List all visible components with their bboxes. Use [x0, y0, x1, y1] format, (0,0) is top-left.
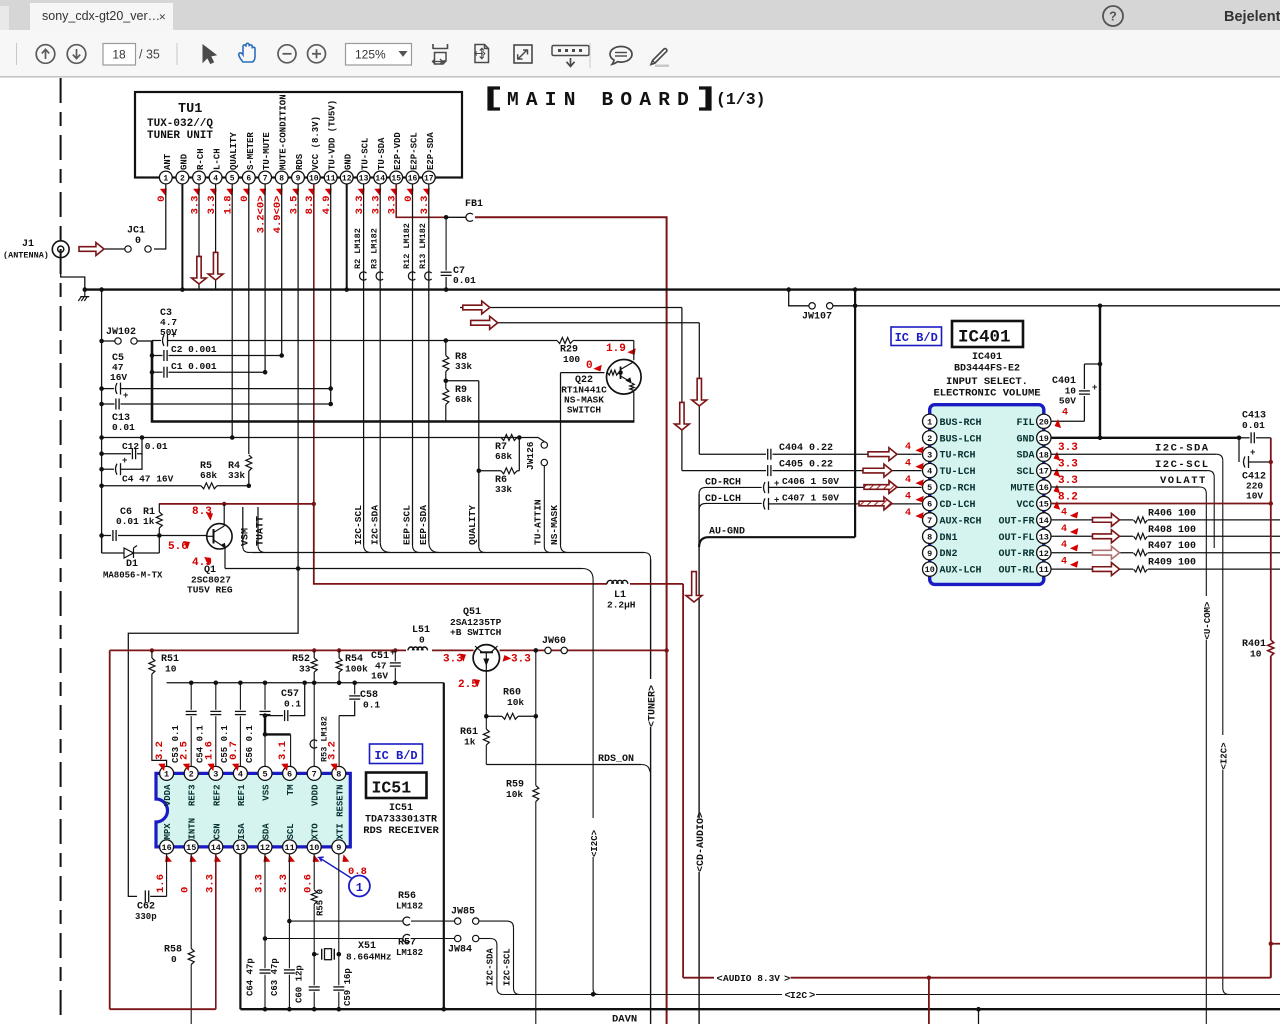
svg-text:TU-MUTE: TU-MUTE — [262, 132, 272, 170]
svg-text:JC1: JC1 — [127, 226, 145, 237]
svg-text:IC B/D: IC B/D — [374, 749, 417, 763]
resistor R8 — [443, 338, 473, 383]
wire R51 to pin1 — [149, 648, 179, 766]
svg-text:3.3: 3.3 — [1058, 442, 1078, 454]
svg-text:330p: 330p — [135, 912, 157, 922]
schematic title MAIN BOARD 1/3 — [489, 88, 766, 111]
zoom level dropdown — [346, 44, 412, 66]
svg-text:XTO: XTO — [311, 823, 321, 840]
svg-text:3.3: 3.3 — [1058, 459, 1078, 471]
inductor L51 — [408, 625, 430, 650]
svg-text:R408 100: R408 100 — [1148, 525, 1196, 536]
jumper JW126 — [519, 438, 556, 553]
svg-text:14: 14 — [1039, 516, 1049, 526]
svg-text:C62: C62 — [137, 902, 155, 913]
wire pin12 SDA down — [246, 854, 271, 1009]
capacitor C7 — [441, 217, 477, 292]
svg-text:VOLATT: VOLATT — [1160, 475, 1207, 487]
svg-text:9: 9 — [927, 549, 932, 559]
svg-text:JW102: JW102 — [106, 327, 136, 338]
diode D1 — [102, 536, 163, 581]
IC401 output R407 — [1051, 540, 1280, 556]
jumper JW107 branch — [789, 290, 1280, 323]
page number box — [103, 44, 136, 66]
IC401 VCC wire maroon — [1051, 492, 1273, 513]
svg-text:6: 6 — [287, 769, 292, 779]
svg-text:50V: 50V — [1059, 396, 1076, 407]
svg-text:✕: ✕ — [159, 11, 166, 23]
svg-text:10k: 10k — [506, 789, 523, 800]
svg-text:11: 11 — [1039, 565, 1049, 575]
IC51 top rail — [167, 681, 444, 686]
svg-text:14: 14 — [375, 174, 385, 183]
svg-text:C1 0.001: C1 0.001 — [171, 361, 217, 372]
svg-text:TU-SDA: TU-SDA — [377, 137, 387, 170]
svg-text:0.01: 0.01 — [1242, 420, 1265, 431]
bus CD-AUDIO vertical — [696, 494, 707, 1024]
TU1 pin 4 (L-CH) — [206, 148, 223, 214]
svg-text:9: 9 — [336, 843, 341, 853]
IC401 pin 4 TU-LCH — [923, 463, 976, 478]
svg-text:7: 7 — [312, 769, 317, 779]
svg-text:4: 4 — [1061, 507, 1067, 518]
arrow on R407 line — [1093, 546, 1120, 559]
svg-text:15: 15 — [391, 174, 401, 183]
svg-text:E2P-SCL: E2P-SCL — [410, 132, 420, 170]
arrow on L-CH — [208, 252, 223, 280]
svg-text:3: 3 — [213, 769, 218, 779]
IC401 pin 16 MUTE — [1010, 480, 1051, 495]
svg-text:0.1: 0.1 — [284, 699, 301, 710]
scrolling mode icon — [433, 44, 448, 49]
svg-text:TU-SCL: TU-SCL — [361, 138, 371, 170]
ferrite bead FB1 — [448, 199, 483, 221]
svg-text:VDDD: VDDD — [311, 784, 321, 806]
svg-text:I2C-SCL: I2C-SCL — [1155, 459, 1210, 471]
svg-text:13: 13 — [1039, 532, 1049, 542]
svg-text:VDDA: VDDA — [163, 784, 173, 806]
junction dots left wire — [99, 339, 104, 538]
svg-text:RDS_ON: RDS_ON — [598, 754, 634, 765]
svg-text:14: 14 — [211, 843, 221, 853]
svg-text:LM182: LM182 — [396, 948, 423, 958]
wire pin9 RDS down — [297, 184, 299, 569]
svg-text:IC401: IC401 — [958, 328, 1011, 348]
svg-text:2.2µH: 2.2µH — [607, 600, 636, 611]
wire Q1 emitter long to I2C bus — [225, 568, 582, 570]
resistor R52 — [292, 648, 317, 683]
svg-text:10: 10 — [1250, 649, 1262, 660]
svg-text:LM182: LM182 — [396, 902, 423, 912]
signal bus to TUNER — [252, 553, 659, 1024]
svg-text:3.1: 3.1 — [277, 741, 289, 760]
capacitor C58 and RESETN wire — [339, 683, 380, 767]
TU1 pin 8 (MUTE-CONDITION) — [272, 94, 289, 233]
svg-text:(1/3): (1/3) — [716, 90, 766, 109]
svg-text:3.3: 3.3 — [204, 874, 216, 893]
arrow on R-CH — [192, 256, 207, 284]
TU1 pin 15 (E2P-VDD) — [387, 132, 404, 215]
arrow on R409 line — [1093, 563, 1120, 576]
svg-text:4: 4 — [905, 459, 911, 470]
svg-text:ANT: ANT — [163, 153, 173, 170]
maroon wire FB1 to right rail — [475, 217, 667, 650]
TU1 pin 1 (ANT) — [156, 153, 173, 202]
svg-text:TU-VDD (TU5V): TU-VDD (TU5V) — [328, 100, 338, 170]
IC401 output R406 — [1051, 507, 1280, 523]
svg-text:R407 100: R407 100 — [1148, 541, 1196, 552]
svg-text:I2C-SCL: I2C-SCL — [353, 505, 364, 545]
svg-text:E2P-SDA: E2P-SDA — [426, 132, 436, 170]
capacitor C56 and VSS wire — [245, 683, 291, 767]
svg-text:<CD-AUDIO>: <CD-AUDIO> — [696, 812, 707, 872]
svg-text:5: 5 — [262, 769, 267, 779]
transistor Q51 2SA1235TP +B SWITCH — [450, 607, 502, 671]
svg-text:C407 1 50V: C407 1 50V — [782, 493, 839, 504]
wire J1 to ground — [61, 258, 85, 290]
svg-text:D1: D1 — [126, 559, 138, 570]
svg-text:TUATT: TUATT — [255, 516, 266, 546]
svg-text:4: 4 — [1062, 408, 1068, 419]
resistor R29 — [446, 338, 634, 366]
IC51 body — [156, 773, 350, 847]
svg-text:3.2: 3.2 — [154, 741, 166, 760]
svg-text:<: < — [717, 974, 723, 986]
IC401 pin 19 GND — [1016, 431, 1051, 446]
svg-text:JW126: JW126 — [525, 441, 536, 470]
IC401 description text — [933, 352, 1040, 400]
junction dots on main bus — [83, 287, 858, 292]
dashed boundary line — [60, 78, 62, 1024]
svg-text:GND: GND — [179, 153, 189, 170]
svg-text:4: 4 — [927, 467, 932, 477]
IC401 reference box — [952, 321, 1023, 348]
TU1 pin 6 (S-METER) — [239, 132, 256, 202]
svg-text:3.3: 3.3 — [511, 654, 531, 666]
IC401 pin 5 CD-RCH — [923, 480, 976, 495]
wire pin15 E2P-VDD to FB1 — [396, 184, 446, 217]
svg-text:OUT-FL: OUT-FL — [998, 533, 1034, 544]
svg-text:17: 17 — [1039, 467, 1049, 477]
svg-text:R13 LM182: R13 LM182 — [418, 223, 428, 269]
jumper JC1 — [104, 226, 151, 253]
jumper JW102 — [102, 327, 152, 344]
wire R8 junction to quality net — [446, 380, 479, 382]
junction dots bottom bus — [263, 1007, 981, 1024]
full screen icon — [514, 45, 532, 63]
page up button — [36, 45, 55, 64]
net AU-GND — [699, 527, 855, 548]
wire pin9 XTI down — [333, 854, 353, 1009]
svg-text:4: 4 — [1061, 524, 1067, 535]
svg-text:8: 8 — [279, 174, 284, 183]
maroon right rail with R401 — [1242, 438, 1274, 978]
main horizontal bus — [85, 288, 1280, 290]
IC401 pin 17 SCL — [1016, 463, 1051, 478]
svg-text:DN1: DN1 — [940, 533, 958, 544]
svg-text:TUX-032//Q: TUX-032//Q — [147, 118, 213, 130]
svg-text:12: 12 — [342, 174, 352, 183]
capacitor C1 — [150, 361, 265, 378]
svg-text:SDA: SDA — [262, 823, 272, 840]
comment tool icon — [610, 46, 632, 64]
wire pin12 GND to main bus — [346, 184, 348, 290]
svg-text:C12 0.01: C12 0.01 — [122, 441, 168, 452]
svg-text:2: 2 — [189, 769, 194, 779]
svg-text:JW84: JW84 — [448, 945, 472, 956]
svg-text:0.1: 0.1 — [363, 700, 380, 711]
svg-text:SCL: SCL — [1016, 467, 1034, 478]
svg-text:SDA: SDA — [1016, 451, 1034, 462]
wire pin17 E2P-SDA down with bead R13 — [418, 184, 439, 553]
capacitor C404 — [768, 443, 922, 460]
resistor R58 — [164, 854, 194, 1024]
svg-text:+B SWITCH: +B SWITCH — [450, 627, 502, 638]
connector J1 ANTENNA — [3, 239, 69, 261]
arrow down on C404 line — [692, 378, 707, 406]
arrow on L-CH line — [463, 301, 490, 314]
svg-text:4: 4 — [905, 508, 911, 519]
svg-text:RDS RECEIVER: RDS RECEIVER — [363, 825, 439, 837]
wire pin6 S-METER down to R4 — [248, 184, 250, 454]
IC401 pin 15 VCC — [1016, 496, 1051, 511]
active tab — [30, 3, 173, 30]
svg-text:16V: 16V — [110, 372, 127, 383]
IC401 SDA wire I2C-SDA — [1051, 442, 1223, 735]
svg-text:C56 0.1: C56 0.1 — [245, 725, 255, 763]
IC51 pin 4 REF1 — [233, 766, 247, 806]
TU1 pin 2 (GND) — [176, 153, 189, 184]
jumper JW84 — [448, 935, 503, 994]
help icon — [1103, 6, 1123, 26]
svg-text:C54 0.1: C54 0.1 — [196, 725, 206, 763]
capacitor C412 — [1239, 438, 1273, 502]
svg-text:sony_cdx-gt20_ver…: sony_cdx-gt20_ver… — [42, 9, 160, 23]
IC401 pin 11 OUT-RL — [998, 562, 1051, 577]
svg-text:16V: 16V — [371, 671, 388, 682]
arrow into CD-RCH hatched — [864, 481, 897, 494]
svg-text:100k: 100k — [345, 664, 368, 675]
svg-text:10: 10 — [309, 174, 319, 183]
svg-text:13: 13 — [235, 843, 245, 853]
IC401 pin 13 OUT-FL — [998, 529, 1051, 544]
svg-text:AUX-RCH: AUX-RCH — [940, 516, 982, 527]
svg-text:SCL: SCL — [286, 823, 296, 839]
svg-text:<I2C>: <I2C> — [1220, 742, 1230, 769]
svg-text:JW107: JW107 — [802, 312, 832, 323]
IC51 pin 8 RESETN — [332, 766, 346, 817]
IC401 pin 3 TU-RCH — [923, 447, 976, 462]
left vertical wire — [101, 290, 103, 553]
svg-text:NS-MASK: NS-MASK — [549, 505, 560, 545]
svg-text:1k: 1k — [464, 737, 476, 748]
svg-text:C64 47p: C64 47p — [246, 958, 256, 996]
svg-text:FIL: FIL — [1016, 418, 1034, 429]
svg-text:I2C: I2C — [790, 990, 807, 1001]
IC51 pin 14 CSN — [209, 823, 223, 854]
IC51 pin 16 MPX — [160, 823, 174, 854]
svg-text:OUT-RL: OUT-RL — [998, 566, 1034, 577]
jumper JW60 — [534, 636, 568, 654]
IC401 pin 18 SDA — [1016, 447, 1051, 462]
svg-text:C60 12p: C60 12p — [295, 965, 305, 1003]
svg-text:3.3: 3.3 — [278, 874, 290, 893]
svg-text:VSS: VSS — [262, 784, 272, 801]
svg-text:1: 1 — [164, 769, 169, 779]
arrow into TU-LCH — [863, 464, 892, 477]
maroon supply rail IC51 — [110, 648, 669, 1009]
resistor R5 — [102, 461, 249, 489]
svg-text:+: + — [123, 391, 128, 401]
svg-text:TU5V REG: TU5V REG — [187, 585, 233, 596]
svg-text:RESETN: RESETN — [335, 785, 345, 817]
wire pin11 TU-VDD down — [330, 184, 332, 404]
arrow on R406 line — [1093, 513, 1120, 526]
svg-text:I2C-SDA: I2C-SDA — [369, 505, 380, 545]
svg-text:0: 0 — [419, 635, 425, 646]
IC401 board tag IC B/D — [891, 327, 942, 346]
svg-text:0.01: 0.01 — [116, 516, 139, 527]
IC401 pin 8 DN1 — [923, 529, 958, 544]
svg-text:(ANTENNA): (ANTENNA) — [3, 251, 49, 261]
svg-text:8: 8 — [927, 532, 932, 542]
svg-text:J1: J1 — [22, 239, 34, 250]
bus I2C mid vertical — [582, 569, 600, 997]
wire pin7 TU-MUTE down — [264, 184, 266, 372]
svg-text:11: 11 — [284, 843, 294, 853]
svg-text:+: + — [1250, 448, 1255, 458]
net labels I2C-SDA I2C-SCL bottom — [485, 948, 512, 986]
svg-text:7: 7 — [263, 174, 268, 183]
svg-text:10: 10 — [309, 843, 319, 853]
svg-text:1: 1 — [927, 417, 932, 427]
svg-text:<TUNER>: <TUNER> — [647, 685, 658, 727]
svg-text:MUTE-CONDITION: MUTE-CONDITION — [279, 94, 289, 170]
resistor R60 — [484, 688, 538, 720]
svg-text:GND: GND — [1016, 434, 1034, 445]
svg-text:BUS-LCH: BUS-LCH — [940, 434, 982, 445]
IC401 pin 20 FIL — [1016, 414, 1051, 429]
crystal box right edge — [443, 683, 445, 1009]
wire to JW85 with bead R56 — [289, 891, 454, 925]
svg-text:13: 13 — [359, 174, 369, 183]
TU1 pin 12 (GND) — [340, 153, 353, 184]
net labels EEP-SCL EEP-SDA — [402, 505, 429, 545]
svg-text:9: 9 — [296, 174, 301, 183]
svg-text:3.3: 3.3 — [254, 874, 266, 893]
svg-text:2: 2 — [180, 174, 185, 183]
crystal X51 — [314, 941, 391, 963]
svg-text:L-CH: L-CH — [213, 148, 223, 170]
IC51 pin 6 TM — [283, 766, 297, 795]
svg-text:DN2: DN2 — [940, 549, 958, 560]
svg-text:I2C-SDA: I2C-SDA — [485, 948, 495, 986]
svg-text:C59 16p: C59 16p — [343, 968, 353, 1006]
browser tab bar — [0, 0, 1280, 30]
svg-text:<U-COM>: <U-COM> — [1203, 602, 1213, 640]
svg-text:0: 0 — [586, 360, 593, 372]
svg-text:+: + — [1092, 383, 1097, 393]
IC401 pin 9 DN2 — [923, 546, 958, 561]
net RDS_ON — [486, 754, 650, 773]
wire pin14 TU-SDA down with bead R3 — [370, 184, 391, 553]
IC51 pin 5 VSS — [258, 766, 272, 800]
maroon AUDIO 8.3V rail — [683, 944, 1271, 1024]
L-CH line to C405 — [460, 308, 766, 471]
svg-text:10: 10 — [165, 664, 177, 675]
svg-text:0.01: 0.01 — [453, 275, 476, 286]
maroon bottom rail — [110, 1008, 216, 1010]
IC51 pin 7 VDDD — [307, 766, 321, 806]
svg-text:TUNER UNIT: TUNER UNIT — [147, 130, 213, 142]
svg-text:REF3: REF3 — [188, 785, 198, 807]
capacitor C57 — [263, 683, 305, 721]
svg-text:ISA: ISA — [237, 823, 247, 840]
zoom out button — [278, 45, 296, 63]
svg-text:15: 15 — [1039, 500, 1049, 510]
transistor Q22 RTIN441C NS-MASK SWITCH — [561, 341, 641, 422]
svg-text:19: 19 — [1039, 434, 1049, 444]
capacitor C413 — [1239, 411, 1271, 444]
svg-text:MUTE: MUTE — [1010, 484, 1034, 495]
svg-text:4: 4 — [905, 492, 911, 503]
net QUALITY wire — [477, 381, 492, 553]
svg-text:IC401: IC401 — [972, 352, 1002, 363]
svg-text:1: 1 — [163, 174, 168, 183]
svg-text:0.01: 0.01 — [112, 422, 135, 433]
resistor R59 — [506, 780, 539, 1024]
IC51 pin 9 XTI — [332, 823, 346, 854]
svg-text:4: 4 — [238, 769, 243, 779]
svg-text:AUDIO 8.3V: AUDIO 8.3V — [723, 973, 780, 984]
svg-text:68k: 68k — [495, 451, 512, 462]
IC401 pin 10 AUX-LCH — [923, 562, 982, 577]
svg-text:12: 12 — [1039, 549, 1049, 559]
svg-text:TU1: TU1 — [178, 102, 202, 117]
R-CH line to C404 — [470, 323, 766, 454]
svg-text:16: 16 — [408, 174, 418, 183]
net labels I2C-SCL I2C-SDA — [353, 505, 381, 545]
TU1 pin 17 (E2P-SDA) — [419, 132, 436, 215]
svg-text:C404 0.22: C404 0.22 — [779, 443, 833, 454]
svg-text:R406 100: R406 100 — [1148, 508, 1196, 519]
hide toolbar icon — [552, 46, 589, 56]
IC51 pin 2 REF3 — [184, 766, 198, 806]
svg-text:C405 0.22: C405 0.22 — [779, 460, 833, 471]
svg-text:TU-RCH: TU-RCH — [940, 451, 976, 462]
wire pin3 R-CH — [198, 184, 200, 289]
capacitor C2 — [150, 344, 282, 361]
wire GND pin19 — [1051, 306, 1241, 440]
svg-text:REF1: REF1 — [237, 784, 247, 806]
svg-text:OUT-FR: OUT-FR — [998, 516, 1034, 527]
svg-text:33k: 33k — [228, 470, 245, 481]
IC401 body — [930, 405, 1044, 585]
maroon stub to right edge — [1269, 942, 1280, 946]
svg-text:X51: X51 — [358, 941, 376, 952]
svg-text:3: 3 — [927, 450, 932, 460]
svg-text:C53 0.1: C53 0.1 — [171, 725, 181, 763]
svg-text:IC51: IC51 — [389, 803, 413, 814]
bus I2C vertical right — [1220, 742, 1230, 994]
toolbar — [0, 30, 1280, 77]
net NS-MASK wire — [561, 373, 605, 553]
svg-text:R3 LM182: R3 LM182 — [370, 228, 380, 269]
svg-text:INTN: INTN — [188, 818, 198, 840]
wire pin14 CSN maroon down — [215, 854, 217, 1009]
wire pin13 TU-SCL down with bead R2 — [353, 184, 371, 553]
svg-text:20: 20 — [1039, 417, 1049, 427]
